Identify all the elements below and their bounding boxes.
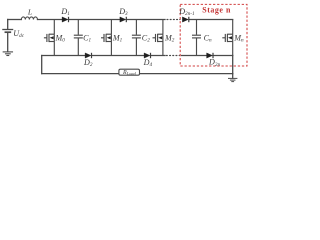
capacitor Cn bbox=[192, 20, 201, 56]
wire middle rail: box edge to D2n bbox=[182, 55, 207, 57]
inductor L bbox=[21, 17, 37, 20]
wire top rail: coil to D1 bbox=[38, 19, 63, 21]
resistor Rload box bbox=[119, 69, 140, 75]
Stage n red dashed box bbox=[180, 4, 247, 66]
svg-text:D3: D3 bbox=[118, 7, 128, 17]
svg-text:D2: D2 bbox=[83, 58, 93, 68]
svg-text:Cn: Cn bbox=[204, 33, 212, 43]
ground (right) bbox=[229, 78, 237, 81]
svg-text:M1: M1 bbox=[112, 33, 123, 43]
wire bottom rail: left end to Rload bbox=[42, 73, 119, 75]
wire top rail: dotted continuation bbox=[167, 19, 180, 21]
transistor M2 bbox=[153, 20, 163, 56]
transistor M0 bbox=[44, 20, 54, 56]
transistor Mn bbox=[222, 20, 232, 56]
wire top rail: D2n-1 cathode to Mn bbox=[189, 19, 232, 21]
wire middle rail: left end to D2 bbox=[42, 55, 85, 57]
svg-text:M2: M2 bbox=[164, 33, 175, 43]
svg-text:D2n: D2n bbox=[208, 58, 220, 68]
wire middle rail: dotted continuation bbox=[166, 55, 179, 57]
capacitor C1 bbox=[74, 20, 83, 56]
svg-text:M0: M0 bbox=[55, 33, 66, 43]
svg-text:Udc: Udc bbox=[13, 29, 24, 39]
diode D4 bbox=[144, 53, 150, 58]
transistor M1 bbox=[101, 20, 111, 56]
wire top rail: D1 to D3 bbox=[69, 19, 120, 21]
wire middle rail: D2n cathode to right bend bbox=[214, 55, 233, 57]
wire right ground stem bbox=[232, 74, 234, 79]
battery Udc plates bbox=[3, 29, 13, 31]
svg-text:Stage n: Stage n bbox=[202, 6, 231, 15]
svg-text:L: L bbox=[27, 8, 32, 17]
svg-text:D1: D1 bbox=[60, 7, 70, 17]
ground (left) bbox=[3, 52, 12, 56]
wire bottom rail: Rload to right bend bbox=[140, 73, 233, 75]
wire top rail: source corner to coil bbox=[8, 19, 22, 21]
svg-text:Mn: Mn bbox=[233, 33, 244, 43]
wire battery drop bbox=[7, 20, 9, 30]
diode D1 bbox=[62, 17, 68, 22]
svg-text:D2n-1: D2n-1 bbox=[178, 7, 195, 17]
wire middle rail: D4 to M2 source tap bbox=[151, 55, 165, 57]
svg-text:RLoad: RLoad bbox=[122, 70, 137, 76]
diode D2 bbox=[85, 53, 91, 58]
svg-text:C1: C1 bbox=[83, 33, 91, 43]
diode D3 bbox=[120, 17, 126, 22]
capacitor C2 bbox=[132, 20, 141, 56]
wire right vertical: middle rail to bottom rail bbox=[232, 56, 234, 74]
diode D2n bbox=[207, 53, 213, 58]
wire top rail: D3 to M2 tap bbox=[127, 19, 165, 21]
diode D2n-1 bbox=[182, 17, 188, 22]
svg-text:D4: D4 bbox=[143, 58, 153, 68]
wire middle rail left bend down bbox=[41, 56, 43, 74]
wire middle rail: D2 to D4 bbox=[92, 55, 145, 57]
svg-text:C2: C2 bbox=[142, 33, 150, 43]
wire battery to ground bbox=[7, 33, 9, 51]
